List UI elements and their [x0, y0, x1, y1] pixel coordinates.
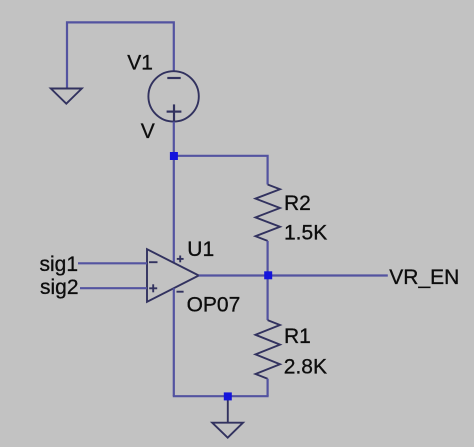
svg-text:V: V [141, 120, 155, 143]
svg-text:sig2: sig2 [40, 276, 79, 299]
ground [51, 89, 82, 104]
svg-text:U1: U1 [187, 238, 214, 261]
svg-text:1.5K: 1.5K [284, 221, 327, 244]
ground [212, 423, 243, 438]
wire [227, 400, 229, 423]
node junction 1 [170, 152, 178, 160]
op-amp U1 [147, 249, 199, 302]
svg-text:2.8K: 2.8K [284, 356, 327, 379]
node junction 3 [224, 392, 232, 400]
wire [173, 122, 175, 153]
resistor R1 [256, 320, 281, 379]
voltage source V1 [148, 71, 198, 121]
svg-text:R1: R1 [284, 325, 311, 348]
wire [174, 156, 268, 185]
svg-text:OP07: OP07 [187, 293, 241, 316]
wire [67, 22, 174, 88]
svg-text:sig1: sig1 [40, 253, 79, 276]
wire [199, 274, 388, 276]
wire [173, 160, 175, 263]
wire [267, 379, 269, 397]
wire [173, 395, 269, 397]
wire [267, 279, 269, 320]
svg-text:VR_EN: VR_EN [389, 266, 459, 289]
svg-text:V1: V1 [127, 52, 153, 75]
wire [173, 288, 175, 396]
wire [80, 287, 147, 289]
wire [78, 262, 147, 264]
svg-text:R2: R2 [284, 192, 311, 215]
resistor R2 [256, 185, 281, 241]
wire [267, 241, 269, 275]
node junction 2 [264, 271, 272, 279]
